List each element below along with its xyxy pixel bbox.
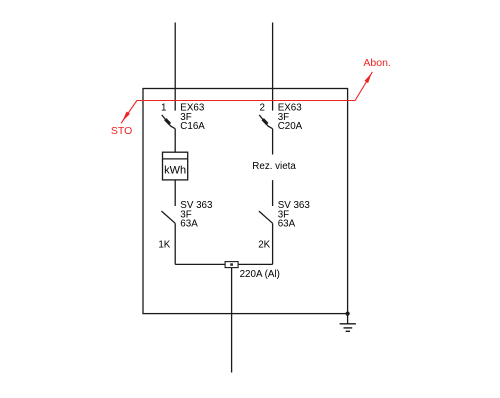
svg-text:C20A: C20A — [278, 121, 303, 132]
ground stub wire — [347, 314, 349, 324]
svg-text:Abon.: Abon. — [363, 57, 390, 69]
svg-text:220A (Al): 220A (Al) — [240, 269, 280, 280]
bottom bus wire — [175, 263, 272, 265]
wire switch 1K to bus — [174, 223, 176, 264]
ground symbol — [340, 324, 356, 332]
cable terminal FU1 — [225, 262, 238, 268]
breaker Q1 — [162, 115, 175, 129]
kWh meter — [163, 152, 188, 180]
junction node — [346, 312, 350, 316]
arrowhead STO — [122, 112, 130, 122]
svg-text:63A: 63A — [180, 219, 198, 230]
svg-text:1K: 1K — [158, 240, 170, 251]
incoming feeder wire L2 — [272, 23, 274, 111]
svg-text:63A: 63A — [278, 219, 296, 230]
labels EX63 3F C20A — [278, 103, 303, 133]
breaker Q2 — [259, 115, 272, 129]
wire breaker Q1 to meter — [174, 129, 176, 153]
arrowhead Abon — [365, 73, 372, 83]
wire switch 2K to bus — [272, 223, 274, 264]
svg-text:STO: STO — [111, 125, 132, 137]
svg-text:C16A: C16A — [180, 121, 205, 132]
wire Rez. vieta to switch 2K — [272, 180, 274, 206]
switch SV1 — [162, 211, 176, 223]
enclosure border — [143, 89, 348, 314]
labels EX63 3F C16A — [180, 103, 205, 133]
labels SV 363 3F 63A right — [278, 200, 311, 230]
svg-text:1: 1 — [161, 103, 166, 114]
svg-text:Rez. vieta: Rez. vieta — [252, 161, 296, 172]
switch SV2 — [259, 211, 273, 223]
wire breaker Q2 down — [272, 129, 274, 155]
outgoing cable wire — [231, 268, 233, 373]
svg-text:kWh: kWh — [164, 165, 186, 177]
svg-text:2K: 2K — [258, 240, 270, 251]
red boundary line — [121, 72, 372, 123]
wire meter to switch 1K — [174, 180, 176, 206]
incoming feeder wire L1 — [174, 23, 176, 111]
labels SV 363 3F 63A left — [180, 200, 213, 230]
svg-text:2: 2 — [259, 103, 264, 114]
